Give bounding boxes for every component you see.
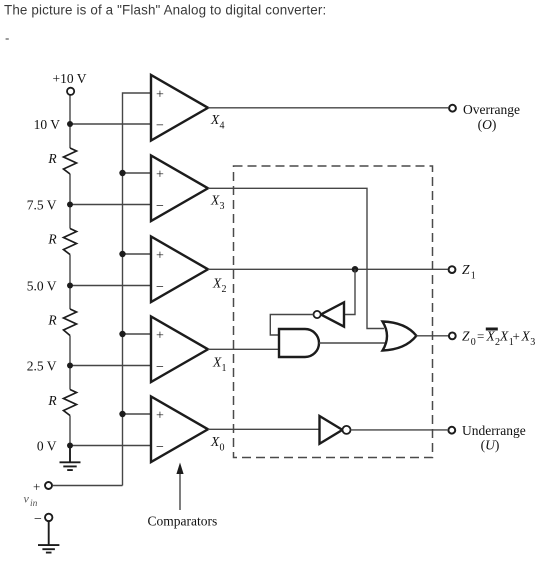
inverter U2 (underrange) [320,416,351,444]
inverter U1 (X2 bar) [314,302,345,326]
wire: OR output to Z0 [416,335,448,337]
svg-text:X: X [499,329,509,344]
node 2.5V [27,358,151,373]
svg-text:X: X [486,329,496,344]
label vin [24,492,38,510]
svg-text:+: + [156,409,164,424]
svg-text:Z: Z [462,329,470,344]
wire: + input taps [123,173,152,414]
arrow: comparators pointer [176,463,183,511]
svg-text:2: 2 [222,284,227,295]
terminal Z1 [449,262,476,282]
svg-text:1: 1 [471,271,476,282]
junction dots on vin bus [119,170,125,417]
comparator X3 [151,156,225,222]
comparator X4 [151,75,225,141]
node 0V [37,438,151,453]
ground (ladder) [60,446,81,471]
svg-text:3: 3 [220,201,225,212]
terminal vin + [33,479,122,494]
svg-text:0 V: 0 V [37,438,57,453]
node: X2 output junction [352,266,359,273]
comparator X2 [151,237,227,303]
svg-text:−: − [156,280,164,295]
svg-text:5.0 V: 5.0 V [27,278,57,293]
wire: X3 output to OR gate [208,188,384,328]
wire: X1 output to AND gate [208,348,279,350]
resistor R4 [47,390,76,416]
svg-text:0: 0 [220,442,225,453]
svg-text:−: − [156,440,164,455]
comparator X1 [151,317,227,383]
svg-text:+: + [33,479,40,494]
title text [4,3,326,46]
svg-text:X: X [212,276,222,291]
svg-text:X: X [521,329,531,344]
svg-text:(O): (O) [478,117,497,132]
wire: X2 output to Z1 [208,268,448,270]
resistor R3 [47,309,76,336]
svg-text:X: X [212,355,222,370]
svg-text:Overrange: Overrange [463,102,520,117]
wire: vin bus vertical [123,93,152,486]
resistor R2 [47,229,76,255]
wire: X0 output to inverter [208,428,320,430]
svg-text:R: R [47,232,57,247]
svg-text:+: + [156,88,164,103]
svg-text:3: 3 [530,337,535,348]
svg-text:The picture is of a "Flash" An: The picture is of a "Flash" Analog to di… [4,3,326,18]
svg-text:+: + [156,168,164,183]
svg-text:+: + [156,249,164,264]
wire: X4 output to Overrange [208,107,448,109]
svg-text:10 V: 10 V [34,117,61,132]
svg-text:+: + [156,329,164,344]
wire: resistor ladder top segment [69,95,71,445]
wire: junction down to inverter input [344,269,355,314]
OR gate [383,322,417,351]
svg-text:R: R [47,313,57,328]
svg-text:0: 0 [471,337,476,348]
terminal Underrange (U) [448,423,525,453]
svg-text:Z: Z [462,262,470,277]
svg-text:-: - [5,31,9,46]
terminal Z0 with equation [449,328,535,349]
svg-text:−: − [156,119,164,134]
wire: inverter output to Underrange [351,429,448,431]
terminal vin - [34,512,52,527]
label Comparators [148,514,218,529]
svg-text:v: v [24,492,30,506]
svg-text:−: − [156,360,164,375]
dashed logic box [234,166,433,458]
node 5.0V [27,278,151,293]
AND gate [279,329,319,357]
svg-text:−: − [34,512,42,527]
svg-text:Comparators: Comparators [148,514,218,529]
terminal Overrange (O) [449,102,520,132]
svg-text:R: R [47,151,57,166]
svg-text:4: 4 [220,121,225,132]
svg-text:−: − [156,199,164,214]
svg-text:R: R [47,393,57,408]
ground (vin) [38,521,59,552]
svg-text:X: X [210,112,220,127]
svg-text:X: X [210,434,220,449]
svg-text:2.5 V: 2.5 V [27,358,57,373]
resistor R1 [47,148,76,174]
svg-text:(U): (U) [481,438,500,453]
power terminal +10V [53,71,87,95]
svg-text:in: in [30,499,38,509]
svg-text:Underrange: Underrange [462,423,526,438]
svg-text:+: + [513,329,520,344]
node 7.5V [27,197,151,212]
wire: AND output to OR gate [319,342,386,344]
svg-text:+10 V: +10 V [53,71,87,86]
comparator X0 [151,397,225,463]
wire: inverter output to AND gate [270,315,313,336]
node 10V [34,117,151,132]
svg-text:X: X [210,193,220,208]
svg-text:7.5 V: 7.5 V [27,197,57,212]
svg-text:=: = [477,329,484,344]
svg-text:1: 1 [222,363,227,374]
